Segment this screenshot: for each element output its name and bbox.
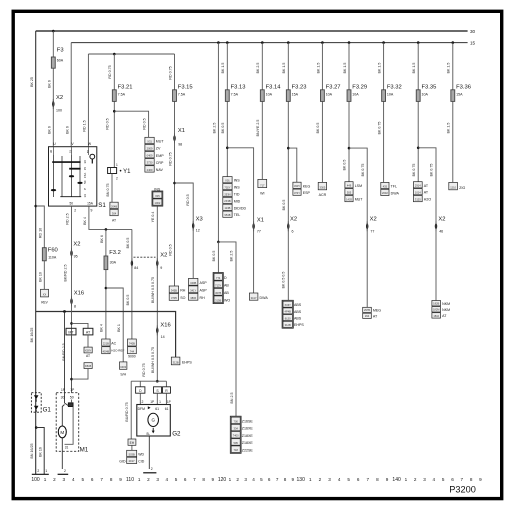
fuse F3.15 — [173, 90, 177, 102]
svg-text:BK 0.5: BK 0.5 — [282, 200, 286, 211]
svg-text:2: 2 — [414, 477, 417, 482]
svg-text:1: 1 — [229, 477, 232, 482]
relay coil Y1 — [108, 168, 117, 174]
wire battery distribution — [36, 312, 176, 358]
svg-text:1: 1 — [159, 400, 161, 404]
svg-text:31: 31 — [65, 446, 69, 450]
variant box AT — [83, 328, 93, 335]
S1 contact blob c — [51, 189, 56, 191]
node F3.21 tap — [113, 53, 116, 56]
svg-text:1P: 1P — [150, 400, 154, 404]
wire branch to X2-77 — [349, 148, 367, 307]
svg-text:MUT: MUT — [156, 140, 165, 144]
svg-text:F60: F60 — [48, 248, 58, 254]
svg-text:Z16SE: Z16SE — [242, 420, 254, 424]
svg-text:2: 2 — [151, 467, 153, 471]
svg-text:TEL: TEL — [234, 213, 241, 217]
svg-text:304: 304 — [112, 211, 117, 215]
svg-text:X01: X01 — [225, 179, 230, 183]
svg-text:6: 6 — [292, 230, 294, 234]
node battery split — [35, 426, 38, 429]
svg-text:8: 8 — [284, 477, 287, 482]
svg-text:1P: 1P — [167, 400, 171, 404]
ignition switch S1 — [49, 147, 97, 206]
svg-text:84: 84 — [134, 266, 138, 270]
svg-text:15: 15 — [83, 167, 87, 171]
svg-text:WD: WD — [138, 453, 144, 457]
node F3.13 tap — [226, 41, 229, 44]
wire bus to F3.15 — [174, 54, 176, 90]
svg-text:BK 1.5: BK 1.5 — [282, 63, 286, 74]
wire F3.32 down — [383, 101, 385, 182]
svg-text:340B: 340B — [190, 281, 196, 285]
svg-text:4: 4 — [166, 477, 169, 482]
fuse F3.21 — [112, 90, 116, 102]
svg-text:4: 4 — [338, 477, 341, 482]
svg-text:EHPS: EHPS — [294, 323, 304, 327]
svg-text:8: 8 — [470, 477, 473, 482]
terminal box DWA — [249, 293, 258, 300]
svg-text:2: 2 — [53, 477, 56, 482]
svg-text:449: 449 — [347, 184, 352, 188]
svg-text:10A: 10A — [266, 93, 273, 97]
wire battery to M1-30 — [64, 312, 66, 404]
motor M — [58, 426, 66, 438]
svg-text:219Y: 219Y — [129, 459, 135, 463]
terminal box EH — [128, 439, 136, 445]
svg-text:204B: 204B — [111, 204, 117, 208]
svg-text:5: 5 — [175, 477, 178, 482]
svg-text:BK 16/25: BK 16/25 — [30, 328, 34, 343]
svg-text:700: 700 — [234, 419, 239, 423]
svg-text:F3.15: F3.15 — [178, 85, 193, 91]
S1 contact column 2 — [61, 156, 63, 197]
connector X1 pin 98 — [173, 135, 175, 142]
svg-text:CRP: CRP — [156, 161, 164, 165]
svg-text:5: 5 — [442, 477, 445, 482]
svg-text:15A: 15A — [87, 202, 94, 206]
wire F3.27 down — [321, 101, 323, 182]
terminal stack D AB AB WO — [213, 273, 223, 304]
svg-text:P: P — [83, 188, 87, 190]
connector X2 pin 9 — [156, 260, 158, 267]
svg-text:10A: 10A — [352, 93, 359, 97]
node F3.29 tap — [348, 41, 351, 44]
svg-text:NAV: NAV — [156, 168, 164, 172]
fuse F3 — [51, 57, 55, 68]
terminal stack WD CID — [127, 450, 137, 456]
svg-text:EH: EH — [130, 441, 135, 445]
terminal stack INS source — [152, 191, 163, 206]
node MUT branch — [113, 110, 116, 113]
svg-text:KEG: KEG — [303, 184, 311, 188]
node F60 branch — [34, 205, 37, 208]
connector X2 pin 46 — [435, 223, 437, 230]
battery G1 terminals — [34, 395, 39, 399]
svg-text:M: M — [60, 430, 64, 435]
svg-text:BK 1.5: BK 1.5 — [412, 63, 416, 74]
svg-text:Z18XE: Z18XE — [242, 434, 254, 438]
svg-text:3125: 3125 — [415, 197, 421, 201]
wire branch to X1-77 — [227, 148, 253, 293]
svg-text:BK 1: BK 1 — [117, 324, 121, 332]
connector X3 pin 12 — [192, 222, 194, 229]
svg-text:RH: RH — [200, 296, 206, 300]
svg-text:77: 77 — [370, 230, 374, 234]
connector X2 pin 84 — [131, 260, 133, 267]
svg-text:345B: 345B — [171, 289, 177, 293]
svg-text:F3.14: F3.14 — [266, 85, 282, 91]
svg-text:12: 12 — [196, 229, 200, 233]
svg-text:ACR: ACR — [319, 193, 327, 197]
svg-text:X16: X16 — [74, 291, 84, 297]
svg-text:BK 6: BK 6 — [47, 80, 51, 88]
svg-text:6: 6 — [91, 477, 94, 482]
svg-text:3: 3 — [156, 477, 159, 482]
connector X2 pin 6 — [287, 223, 289, 230]
svg-text:182B: 182B — [433, 302, 439, 306]
svg-text:RD 0.5: RD 0.5 — [169, 244, 173, 255]
svg-text:BK/RD 2.5: BK/RD 2.5 — [64, 265, 68, 282]
wire to F3.32 — [383, 43, 385, 90]
variant box MT — [66, 328, 76, 335]
svg-text:ZIG: ZIG — [459, 186, 465, 190]
svg-text:3: 3 — [63, 477, 66, 482]
wire F3.29 down — [348, 101, 350, 181]
svg-text:X1: X1 — [178, 128, 185, 134]
svg-text:10A: 10A — [422, 93, 429, 97]
wire to F3.29 — [348, 43, 350, 90]
fuse F3.29 — [347, 90, 351, 102]
wire AT rejoin — [72, 369, 89, 380]
svg-text:AC: AC — [111, 341, 116, 345]
svg-text:221B: 221B — [103, 342, 109, 346]
wire motor to ground — [61, 438, 63, 469]
svg-text:7.5A: 7.5A — [118, 93, 126, 97]
svg-text:BK 0.5: BK 0.5 — [221, 123, 225, 134]
terminal stack LSM MUT — [345, 182, 353, 188]
svg-text:BN 0.75: BN 0.75 — [106, 184, 110, 197]
wire G2 to ground — [148, 436, 150, 469]
svg-text:TID: TID — [234, 193, 240, 197]
svg-text:F3.27: F3.27 — [326, 85, 341, 91]
svg-text:G2: G2 — [172, 431, 181, 438]
svg-text:1P: 1P — [70, 388, 74, 392]
svg-text:F3.2: F3.2 — [109, 250, 121, 256]
svg-text:BK 2.5: BK 2.5 — [212, 123, 216, 134]
svg-text:130: 130 — [297, 477, 306, 483]
svg-text:4: 4 — [72, 477, 75, 482]
svg-text:6: 6 — [184, 477, 187, 482]
svg-text:9: 9 — [160, 266, 162, 270]
svg-text:9: 9 — [119, 477, 122, 482]
wire G2 signal bus — [131, 380, 166, 382]
wire F3.35 down — [417, 101, 419, 181]
svg-text:95: 95 — [74, 255, 78, 259]
svg-text:X31: X31 — [147, 139, 152, 143]
svg-text:15A: 15A — [292, 93, 299, 97]
wire branch to Z-stack — [218, 242, 236, 416]
svg-text:F3.32: F3.32 — [387, 85, 402, 91]
ground bar M1 — [58, 473, 69, 475]
svg-text:BK 6: BK 6 — [65, 126, 69, 134]
svg-text:30: 30 — [83, 160, 87, 164]
svg-text:YE 0.4: YE 0.4 — [151, 212, 155, 223]
fuse F3.36 — [451, 90, 455, 102]
fuse F3.27 — [320, 90, 324, 102]
svg-text:X58Y: X58Y — [85, 349, 92, 353]
svg-text:50: 50 — [86, 150, 90, 154]
svg-text:2914: 2914 — [415, 184, 421, 188]
svg-text:312B: 312B — [173, 361, 179, 365]
svg-text:46: 46 — [439, 230, 443, 234]
svg-text:• Y1: • Y1 — [120, 169, 132, 175]
starter solenoid coil — [68, 403, 73, 407]
solenoid output wire — [65, 407, 74, 445]
svg-text:RD 0.5: RD 0.5 — [106, 118, 110, 129]
svg-text:BK 0.5: BK 0.5 — [343, 160, 347, 171]
svg-text:DWA: DWA — [391, 191, 400, 195]
svg-text:DID/DD: DID/DD — [234, 206, 247, 210]
svg-text:1: 1 — [138, 477, 141, 482]
connector X16 pin 8 — [70, 298, 72, 305]
svg-text:30: 30 — [470, 29, 476, 34]
svg-text:F3: F3 — [57, 48, 64, 54]
svg-text:BN 16/25: BN 16/25 — [30, 444, 34, 459]
svg-text:2409: 2409 — [147, 168, 153, 172]
wire branch to S/H — [106, 288, 123, 362]
variant box S — [154, 387, 162, 393]
wire battery main — [35, 31, 37, 393]
node MT split — [70, 322, 73, 325]
node X1-77 branch — [226, 147, 229, 150]
wire to EH — [130, 381, 132, 439]
svg-text:BK 16: BK 16 — [38, 447, 42, 457]
node AT branch — [417, 147, 420, 150]
svg-text:98: 98 — [178, 143, 182, 147]
svg-text:2: 2 — [147, 477, 150, 482]
svg-text:7400: 7400 — [233, 434, 239, 438]
bus 15 — [71, 42, 467, 44]
generator G2 box — [137, 405, 171, 437]
svg-text:954B: 954B — [224, 213, 230, 217]
svg-text:X05: X05 — [155, 194, 160, 198]
svg-text:BK 10: BK 10 — [38, 272, 42, 282]
wire to F3.21 — [113, 54, 115, 90]
svg-text:NKM: NKM — [442, 308, 450, 312]
svg-text:BK 0.75: BK 0.75 — [377, 122, 381, 135]
svg-text:RD 2.5: RD 2.5 — [65, 213, 69, 224]
fuse F3.14 — [260, 90, 264, 102]
svg-text:ZV: ZV — [156, 147, 161, 151]
svg-text:BK 2.5: BK 2.5 — [230, 251, 234, 262]
svg-text:BK 0.5: BK 0.5 — [212, 251, 216, 262]
svg-text:6L50: 6L50 — [285, 316, 291, 320]
svg-text:744: 744 — [130, 349, 135, 353]
svg-text:ABS: ABS — [294, 303, 302, 307]
wire MT down — [71, 335, 73, 393]
svg-text:6: 6 — [357, 477, 360, 482]
connector X2 pin 100 — [52, 101, 54, 108]
solenoid link — [65, 403, 69, 406]
svg-text:BK 0.75: BK 0.75 — [430, 164, 434, 177]
wire to D-AB stack — [217, 242, 219, 273]
svg-text:294: 294 — [365, 314, 370, 318]
svg-text:BK 0.5: BK 0.5 — [126, 295, 130, 306]
svg-text:EMP: EMP — [156, 154, 164, 158]
node X3 branch — [173, 182, 176, 185]
terminal stack ABS EHPS — [282, 300, 293, 328]
svg-text:BK 25: BK 25 — [30, 77, 34, 87]
svg-text:50: 50 — [70, 202, 74, 206]
svg-text:1014: 1014 — [415, 191, 421, 195]
wire Y1 down — [111, 174, 113, 203]
node F3.36 tap — [452, 41, 455, 44]
terminal box AT code — [84, 347, 92, 353]
node F3.23 tap — [287, 41, 290, 44]
svg-text:F3.29: F3.29 — [352, 85, 367, 91]
svg-text:X16: X16 — [160, 323, 170, 329]
svg-text:1: 1 — [405, 477, 408, 482]
terminal box ZIG — [449, 182, 458, 189]
svg-text:9000: 9000 — [128, 355, 136, 359]
fuse F3.32 — [382, 90, 386, 102]
svg-text:ABS: ABS — [294, 317, 302, 321]
svg-text:AT: AT — [86, 354, 90, 358]
S1 contact blob b — [77, 182, 82, 184]
wire to battery — [35, 393, 37, 474]
svg-text:9: 9 — [479, 477, 482, 482]
wire F60 to REV — [43, 261, 45, 290]
wire EH to GID — [131, 445, 133, 450]
svg-text:2009: 2009 — [147, 147, 153, 151]
variant box D — [136, 387, 145, 393]
svg-text:15A: 15A — [456, 93, 463, 97]
wire S1-W to bus — [87, 54, 89, 147]
wire branch to X3 — [175, 183, 194, 278]
svg-text:RD 1.5: RD 1.5 — [83, 120, 87, 131]
fuse F3.2 — [104, 256, 108, 270]
wire branch to X2-46 — [418, 148, 436, 301]
svg-text:2: 2 — [142, 400, 144, 404]
wire bus30 to F3 — [52, 31, 54, 57]
svg-text:334: 334 — [234, 427, 239, 431]
svg-text:6: 6 — [268, 477, 271, 482]
wire S1-15A output — [89, 206, 132, 229]
svg-text:7: 7 — [276, 477, 279, 482]
svg-text:Z16XE: Z16XE — [242, 427, 254, 431]
node branch to engine — [217, 241, 220, 244]
svg-text:F3.36: F3.36 — [456, 85, 471, 91]
node F3.27 tap — [321, 41, 324, 44]
svg-text:S/H: S/H — [120, 372, 126, 376]
svg-text:2002: 2002 — [382, 191, 388, 195]
svg-text:F3.23: F3.23 — [292, 85, 307, 91]
wire BK2.5 down — [217, 43, 219, 242]
svg-text:INS: INS — [234, 179, 241, 183]
svg-text:774: 774 — [216, 276, 221, 280]
svg-text:BK 1.5: BK 1.5 — [316, 63, 320, 74]
svg-text:AB: AB — [224, 284, 229, 288]
svg-text:LSM: LSM — [355, 184, 362, 188]
svg-text:X1: X1 — [257, 218, 264, 224]
wire to F3.14 — [261, 43, 263, 90]
svg-text:X2: X2 — [56, 95, 63, 101]
svg-text:X06Y: X06Y — [285, 303, 292, 307]
svg-text:10A: 10A — [387, 93, 394, 97]
node bus15 tap — [217, 41, 220, 44]
terminal box ACR — [318, 182, 326, 189]
node M1 supply — [63, 310, 66, 313]
svg-text:ASP: ASP — [200, 281, 208, 285]
svg-text:GID: GID — [119, 459, 126, 463]
svg-text:MID: MID — [234, 199, 241, 203]
svg-text:30: 30 — [61, 396, 65, 400]
svg-text:7: 7 — [367, 477, 370, 482]
svg-text:312B: 312B — [285, 323, 291, 327]
node AT rejoin — [70, 378, 73, 381]
svg-text:9: 9 — [292, 477, 295, 482]
svg-text:505: 505 — [347, 191, 352, 195]
node F3 tap — [52, 30, 55, 33]
svg-text:1P: 1P — [61, 388, 65, 392]
svg-text:INS: INS — [234, 186, 241, 190]
S1 contact bar 15 — [69, 168, 80, 170]
fuse F60 — [42, 248, 46, 261]
svg-text:BK 4: BK 4 — [83, 217, 87, 225]
svg-text:WI: WI — [260, 192, 264, 196]
svg-text:15A: 15A — [83, 173, 87, 178]
svg-text:60A: 60A — [57, 59, 64, 63]
svg-text:1403: 1403 — [346, 197, 352, 201]
wire D to G2 DFM — [139, 393, 141, 404]
terminal stack TFL DWA — [381, 182, 389, 188]
svg-text:M1: M1 — [80, 447, 89, 454]
svg-text:BU/RD 0.75: BU/RD 0.75 — [125, 402, 129, 421]
wire to F3.2 — [105, 229, 107, 256]
terminal stack RH SO — [169, 286, 178, 293]
terminal stack MEG AT — [363, 307, 372, 312]
svg-text:5: 5 — [82, 477, 85, 482]
svg-text:F3.35: F3.35 — [422, 85, 437, 91]
S1 contact bar 30 — [52, 161, 80, 163]
svg-text:595: 595 — [234, 441, 239, 445]
svg-text:100: 100 — [56, 109, 62, 113]
svg-text:1: 1 — [116, 163, 118, 167]
S1 contact column 1 — [53, 155, 55, 197]
svg-text:AB: AB — [224, 291, 229, 295]
svg-text:19: 19 — [83, 194, 87, 198]
svg-text:BN 2.5: BN 2.5 — [230, 393, 234, 404]
terminal boxes AT — [110, 202, 118, 208]
svg-text:3: 3 — [423, 477, 426, 482]
svg-text:2: 2 — [64, 469, 66, 473]
node F3.14 tap — [261, 41, 264, 44]
svg-text:100: 100 — [31, 477, 40, 483]
svg-text:140: 140 — [392, 477, 401, 483]
svg-text:30: 30 — [49, 150, 53, 154]
wire F3.36 down — [452, 101, 454, 182]
svg-text:10A: 10A — [326, 93, 333, 97]
wire to F3.13 — [226, 43, 228, 90]
connector X1 pin 77 — [252, 223, 254, 230]
svg-text:RD 10: RD 10 — [38, 228, 42, 238]
terminal stack engine variants — [230, 416, 241, 453]
terminal box WI — [258, 179, 267, 187]
svg-text:330Y: 330Y — [294, 184, 300, 188]
svg-text:9: 9 — [212, 477, 215, 482]
svg-text:1002: 1002 — [155, 201, 161, 205]
